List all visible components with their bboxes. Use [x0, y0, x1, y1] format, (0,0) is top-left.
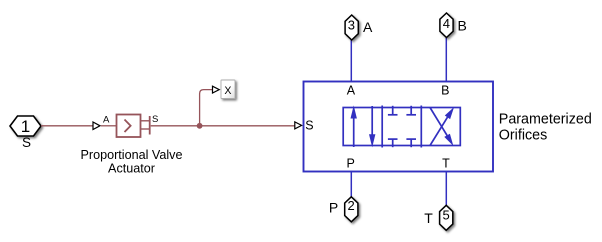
chevron icon	[125, 120, 131, 133]
svg-text:3: 3	[348, 17, 355, 32]
branch wire to X tag	[200, 90, 213, 126]
down arrow shaft	[371, 106, 373, 135]
wire actuator to valve S	[151, 125, 295, 127]
arrowhead at actuator input	[93, 122, 100, 130]
svg-text:2: 2	[347, 198, 354, 213]
svg-text:5: 5	[442, 207, 449, 222]
svg-text:Parameterized: Parameterized	[499, 111, 592, 127]
wire arrowhead to actuator	[101, 125, 116, 127]
svg-text:A: A	[103, 115, 110, 126]
port 5	[440, 205, 453, 230]
svg-text:B: B	[441, 83, 449, 97]
block Parameterized Orifices (valve body)	[304, 82, 494, 172]
svg-text:4: 4	[443, 16, 450, 31]
port 4	[440, 13, 453, 38]
blocked port stubs middle cell	[392, 106, 394, 115]
svg-text:Orifices: Orifices	[499, 128, 547, 144]
wire valve T to port5	[445, 172, 447, 206]
svg-text:S: S	[305, 118, 313, 132]
valve symbol envelope	[343, 106, 460, 148]
svg-text:T: T	[442, 157, 450, 171]
svg-text:S: S	[22, 135, 31, 150]
wire port3 to valve A	[350, 40, 352, 81]
X arrow head down-right	[444, 134, 453, 146]
svg-text:P: P	[347, 157, 355, 171]
blocked port crossbars	[388, 114, 398, 116]
junction	[197, 123, 203, 129]
wire inport1 to actuator	[41, 125, 93, 127]
port 3	[345, 15, 358, 40]
divider 1	[381, 106, 383, 148]
svg-text:T: T	[424, 210, 433, 226]
svg-text:S: S	[152, 114, 158, 125]
goto tag X	[221, 80, 235, 99]
svg-text:P: P	[329, 199, 338, 215]
wire valve P to port2	[350, 172, 352, 197]
svg-text:1: 1	[21, 117, 30, 136]
svg-text:A: A	[363, 19, 373, 35]
up arrow head	[351, 105, 357, 118]
svg-text:B: B	[458, 17, 467, 33]
X arrow shafts	[430, 117, 448, 145]
svg-text:X: X	[224, 85, 231, 97]
port 2	[345, 197, 358, 222]
svg-text:Proportional Valve: Proportional Valve	[81, 148, 183, 162]
down arrow head	[369, 134, 375, 147]
svg-text:Actuator: Actuator	[108, 162, 155, 176]
PS output port symbol	[141, 116, 150, 135]
up arrow shaft	[353, 118, 355, 148]
X arrow head up-right	[445, 107, 454, 119]
wire port4 to valve B	[445, 38, 447, 82]
arrowhead at X tag	[213, 86, 220, 93]
svg-text:A: A	[347, 84, 356, 98]
divider 2	[420, 106, 422, 148]
inport 1	[10, 116, 41, 136]
block Proportional Valve Actuator	[117, 115, 141, 138]
arrowhead at valve S port	[295, 122, 302, 129]
